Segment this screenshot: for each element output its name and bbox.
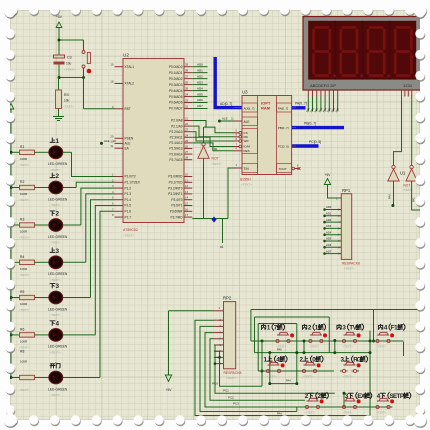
svg-text:PC0: PC0: [212, 382, 218, 386]
svg-text:R8: R8: [20, 350, 24, 354]
svg-text:<TEXT>: <TEXT>: [343, 375, 353, 379]
svg-text:P1.1/T2EX: P1.1/T2EX: [125, 181, 141, 185]
svg-text:PA[0..7]: PA[0..7]: [295, 102, 307, 106]
svg-text:P1.2: P1.2: [125, 186, 132, 190]
svg-text:+5V: +5V: [166, 388, 173, 392]
svg-text:P2.1/A9: P2.1/A9: [171, 124, 183, 128]
svg-text:2: 2: [300, 357, 304, 364]
svg-text:AD[0..7]: AD[0..7]: [220, 102, 232, 106]
svg-text:<TEXT>: <TEXT>: [19, 308, 30, 312]
svg-text:P0.3/AD3: P0.3/AD3: [169, 83, 183, 87]
svg-text:1: 1: [264, 357, 268, 364]
svg-text:39: 39: [185, 63, 189, 67]
svg-text:3: 3: [341, 357, 345, 364]
svg-text:32: 32: [185, 104, 189, 108]
svg-text:RES: RES: [244, 149, 250, 153]
svg-text:PC1: PC1: [223, 389, 229, 393]
svg-text:10u: 10u: [66, 62, 72, 66]
svg-text:P0.6/AD6: P0.6/AD6: [169, 101, 183, 105]
svg-text:29: 29: [110, 134, 114, 138]
svg-text:38: 38: [185, 69, 189, 73]
svg-text:ALE: ALE: [104, 139, 110, 143]
svg-text:<TEXT>: <TEXT>: [377, 411, 387, 415]
svg-text:<TEXT>: <TEXT>: [50, 203, 61, 207]
svg-text:36: 36: [185, 81, 189, 85]
svg-text:P1.3: P1.3: [125, 192, 132, 196]
svg-text:P1.0/T2: P1.0/T2: [125, 175, 136, 179]
svg-text:LED-GREEN: LED-GREEN: [48, 197, 68, 201]
svg-text:1: 1: [267, 325, 271, 332]
svg-text:P3.2/INT0: P3.2/INT0: [168, 186, 183, 190]
svg-text:PSEN: PSEN: [125, 137, 134, 141]
svg-text:AT89C52: AT89C52: [123, 228, 138, 232]
svg-text:<TEXT>: <TEXT>: [226, 376, 237, 380]
svg-text:PA0: PA0: [388, 194, 392, 199]
svg-text:15: 15: [185, 202, 189, 206]
svg-text:RESPACK8: RESPACK8: [224, 371, 242, 375]
svg-text:R2: R2: [20, 180, 24, 184]
svg-text:R5: R5: [20, 290, 24, 294]
svg-text:RST: RST: [125, 107, 131, 111]
svg-text:<TEXT>: <TEXT>: [50, 168, 61, 172]
svg-text:10k: 10k: [64, 99, 70, 103]
svg-text:<TEXT>: <TEXT>: [50, 241, 61, 245]
svg-text:17: 17: [185, 213, 189, 217]
svg-text:100R: 100R: [20, 192, 28, 196]
svg-text:ALE: ALE: [222, 117, 228, 121]
svg-text:<TEXT>: <TEXT>: [50, 278, 61, 282]
svg-text:R1: R1: [20, 145, 24, 149]
svg-text:LED-GREEN: LED-GREEN: [48, 162, 68, 166]
svg-text:12: 12: [185, 184, 189, 188]
svg-text:ABCDEFG DP: ABCDEFG DP: [310, 83, 336, 88]
svg-text:<TEXT>: <TEXT>: [211, 162, 222, 166]
svg-text:4: 4: [377, 393, 381, 400]
svg-text:U1: U1: [400, 171, 406, 176]
svg-text:RP1: RP1: [342, 188, 351, 193]
svg-text:LED-GREEN: LED-GREEN: [48, 307, 68, 311]
svg-text:37: 37: [185, 75, 189, 79]
svg-text:100R: 100R: [20, 267, 28, 271]
svg-text:P2.7/A15: P2.7/A15: [169, 158, 182, 162]
svg-text:19: 19: [110, 63, 114, 67]
svg-text:<TEXT>: <TEXT>: [50, 313, 61, 317]
svg-text:P0.0/AD0: P0.0/AD0: [169, 65, 183, 69]
svg-text:AD5: AD5: [197, 92, 203, 96]
svg-text:<TEXT>: <TEXT>: [19, 388, 30, 392]
svg-text:<TEXT>: <TEXT>: [343, 345, 353, 349]
svg-text:U3: U3: [242, 90, 248, 95]
svg-text:P2.2/A10: P2.2/A10: [169, 130, 182, 134]
svg-text:AD4: AD4: [326, 230, 332, 234]
svg-text:<TEXT>: <TEXT>: [377, 345, 387, 349]
svg-text:3: 3: [345, 393, 349, 400]
svg-text:AD2: AD2: [326, 218, 332, 222]
svg-text:AD2: AD2: [197, 74, 203, 78]
svg-text:LED-GREEN: LED-GREEN: [48, 387, 68, 391]
svg-text:P1.4: P1.4: [125, 198, 132, 202]
svg-text:<TEXT>: <TEXT>: [241, 183, 252, 187]
svg-text:R3: R3: [20, 218, 24, 222]
svg-text:PC2: PC2: [228, 396, 234, 400]
svg-text:P1.5: P1.5: [125, 204, 132, 208]
svg-text:P2.0/A8: P2.0/A8: [171, 119, 183, 123]
svg-text:100R: 100R: [20, 230, 28, 234]
svg-text:22: 22: [185, 122, 189, 126]
svg-text:NOT: NOT: [404, 184, 411, 188]
svg-text:P3.7/RD: P3.7/RD: [170, 215, 183, 219]
svg-text:18: 18: [110, 80, 114, 84]
svg-text:P0.4/AD4: P0.4/AD4: [169, 89, 183, 93]
svg-text:<TEXT>: <TEXT>: [50, 350, 61, 354]
svg-text:U2: U2: [123, 53, 129, 58]
svg-text:RP2: RP2: [223, 296, 232, 301]
svg-text:TIN: TIN: [244, 167, 250, 171]
svg-text:P0.2/AD2: P0.2/AD2: [169, 77, 183, 81]
svg-text:24: 24: [185, 133, 189, 137]
svg-text:P2.6/A14: P2.6/A14: [169, 152, 182, 156]
svg-text:100R: 100R: [20, 360, 28, 364]
svg-text:P3.1/TXD: P3.1/TXD: [169, 181, 184, 185]
svg-text:13: 13: [185, 190, 189, 194]
svg-text:35: 35: [185, 87, 189, 91]
svg-text:8155H: 8155H: [240, 178, 251, 182]
svg-text:100R: 100R: [20, 302, 28, 306]
svg-text:2: 2: [308, 325, 312, 332]
svg-text:<TEXT>: <TEXT>: [277, 345, 287, 349]
svg-text:AD3: AD3: [197, 80, 203, 84]
svg-text:AD7: AD7: [326, 249, 332, 253]
svg-text:<TEXT>: <TEXT>: [303, 375, 313, 379]
svg-text:<TEXT>: <TEXT>: [19, 163, 30, 167]
svg-text:LED-GREEN: LED-GREEN: [48, 235, 68, 239]
svg-text:C3: C3: [67, 56, 72, 60]
svg-text:P0.5/AD5: P0.5/AD5: [169, 95, 183, 99]
svg-text:AD6: AD6: [197, 98, 203, 102]
svg-text:100R: 100R: [20, 157, 28, 161]
svg-text:34: 34: [185, 93, 189, 97]
svg-text:P3.5/T1: P3.5/T1: [171, 204, 182, 208]
svg-text:+5V: +5V: [325, 173, 332, 177]
svg-text:<TEXT>: <TEXT>: [123, 234, 134, 238]
svg-text:<TEXT>: <TEXT>: [63, 105, 74, 109]
svg-text:XTAL1: XTAL1: [125, 65, 135, 69]
svg-text:AD3: AD3: [326, 224, 332, 228]
svg-text:LED-GREEN: LED-GREEN: [48, 272, 68, 276]
svg-text:AD7: AD7: [197, 104, 203, 108]
svg-text:14: 14: [185, 196, 189, 200]
svg-text:TOUT: TOUT: [279, 167, 287, 171]
svg-text:AD0[..7]: AD0[..7]: [244, 107, 255, 111]
svg-text:25: 25: [185, 139, 189, 143]
svg-text:<TEXT>: <TEXT>: [19, 198, 30, 202]
svg-text:NOT: NOT: [212, 157, 219, 161]
svg-text:23: 23: [185, 128, 189, 132]
svg-text:P3.3/INT1: P3.3/INT1: [168, 192, 183, 196]
svg-text:11: 11: [185, 178, 188, 182]
svg-text:PA[0..7]: PA[0..7]: [278, 107, 289, 111]
svg-text:2: 2: [305, 393, 309, 400]
svg-text:AD5: AD5: [326, 237, 332, 241]
svg-text:XTAL2: XTAL2: [125, 82, 135, 86]
svg-text:P0.1/AD1: P0.1/AD1: [169, 71, 183, 75]
svg-text:<TEXT>: <TEXT>: [50, 393, 61, 397]
svg-text:AD1: AD1: [197, 68, 203, 72]
svg-text:PC[0..5]: PC[0..5]: [278, 145, 289, 149]
svg-text:P0.7/AD7: P0.7/AD7: [169, 107, 183, 111]
svg-text:PC[0..5]: PC[0..5]: [309, 140, 321, 144]
svg-text:<TEXT>: <TEXT>: [309, 345, 319, 349]
svg-text:AD1: AD1: [326, 212, 332, 216]
svg-text:26: 26: [185, 145, 189, 149]
svg-text:P3.6/WR: P3.6/WR: [170, 210, 183, 214]
svg-text:WR: WR: [244, 139, 250, 143]
svg-text:PA4: PA4: [277, 411, 282, 415]
svg-text:<TEXT>: <TEXT>: [64, 68, 75, 72]
svg-text:<TEXT>: <TEXT>: [306, 411, 316, 415]
svg-text:PB[0..7]: PB[0..7]: [304, 122, 316, 126]
svg-text:P3.4/T0: P3.4/T0: [171, 198, 182, 202]
svg-text:AD0: AD0: [326, 205, 332, 209]
svg-text:LED-GREEN: LED-GREEN: [48, 345, 68, 349]
svg-text:R6: R6: [20, 327, 24, 331]
svg-text:AD6: AD6: [326, 243, 332, 247]
svg-text:100R: 100R: [20, 339, 28, 343]
svg-text:PB[0..7]: PB[0..7]: [278, 126, 289, 130]
svg-text:<TEXT>: <TEXT>: [19, 273, 30, 277]
svg-text:33: 33: [185, 99, 189, 103]
svg-text:R4: R4: [20, 255, 24, 259]
svg-text:AD0: AD0: [197, 62, 203, 66]
svg-text:PA4: PA4: [286, 378, 291, 382]
svg-text:P2.5/A13: P2.5/A13: [169, 147, 182, 151]
svg-text:27: 27: [185, 150, 189, 154]
svg-text:RESPACK8: RESPACK8: [342, 262, 360, 266]
svg-text:PC3: PC3: [233, 402, 239, 406]
svg-text:RAM: RAM: [261, 106, 271, 111]
svg-text:10: 10: [185, 173, 189, 177]
svg-text:<TEXT>: <TEXT>: [267, 375, 277, 379]
svg-text:P1.6: P1.6: [125, 210, 132, 214]
svg-text:P2.4/A12: P2.4/A12: [169, 141, 182, 145]
svg-text:31: 31: [110, 144, 114, 148]
svg-text:ALE: ALE: [125, 142, 131, 146]
svg-text:RX: RX: [64, 93, 70, 97]
svg-text:PA1: PA1: [412, 197, 416, 202]
svg-text:a1: a1: [220, 245, 224, 249]
svg-text:<TEXT>: <TEXT>: [343, 411, 353, 415]
svg-text:P3.0/RXD: P3.0/RXD: [168, 175, 183, 179]
svg-text:28: 28: [185, 156, 189, 160]
svg-text:ALE: ALE: [244, 120, 250, 124]
svg-text:21: 21: [185, 117, 189, 121]
svg-text:P1.7: P1.7: [125, 215, 132, 219]
svg-text:P2.3/A11: P2.3/A11: [170, 136, 183, 140]
svg-text:AD4: AD4: [197, 86, 203, 90]
svg-text:4: 4: [384, 325, 388, 332]
svg-text:16: 16: [185, 207, 189, 211]
svg-text:1234: 1234: [403, 83, 413, 88]
svg-text:<TEXT>: <TEXT>: [19, 236, 30, 240]
svg-text:3: 3: [342, 325, 346, 332]
svg-text:<TEXT>: <TEXT>: [344, 267, 355, 271]
